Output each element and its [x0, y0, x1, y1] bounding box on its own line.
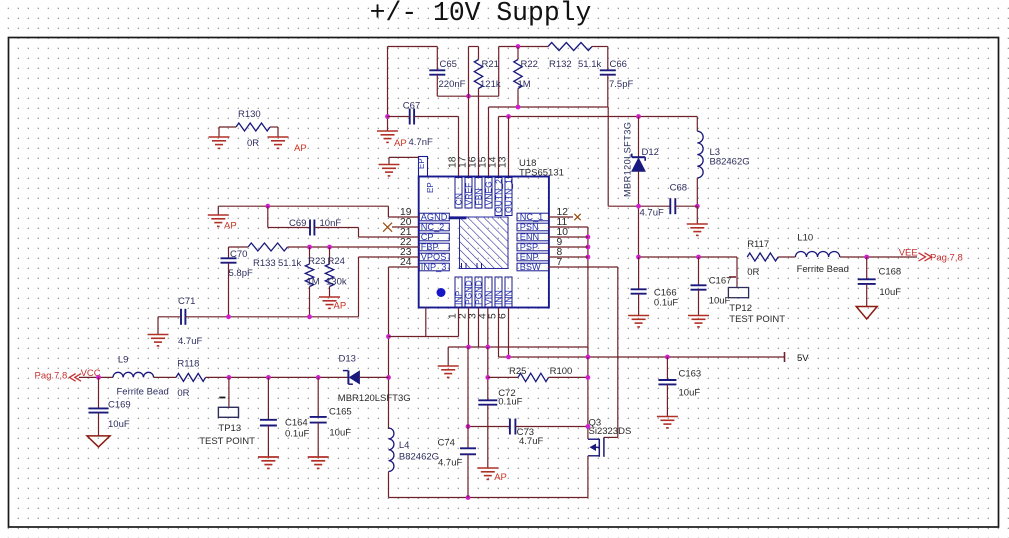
svg-text:C68: C68 — [670, 183, 687, 194]
svg-text:C169: C169 — [108, 400, 131, 411]
svg-text:1M: 1M — [518, 79, 531, 90]
svg-text:1M: 1M — [307, 277, 320, 288]
svg-text:L4: L4 — [399, 440, 410, 451]
svg-text:24: 24 — [400, 257, 412, 268]
svg-text:Pag.7,8: Pag.7,8 — [35, 371, 68, 382]
svg-text:0R: 0R — [247, 138, 259, 149]
svg-text:AP: AP — [224, 221, 237, 232]
svg-text:D12: D12 — [642, 147, 659, 158]
svg-text:VNEG: VNEG — [484, 181, 494, 206]
svg-text:C67: C67 — [403, 101, 420, 112]
svg-text:C71: C71 — [178, 296, 195, 307]
svg-text:C168: C168 — [879, 267, 902, 278]
svg-text:R132: R132 — [549, 59, 572, 70]
svg-text:B82462G: B82462G — [710, 157, 750, 168]
svg-text:EP: EP — [426, 182, 435, 193]
svg-text:51.1k: 51.1k — [278, 258, 301, 269]
svg-text:C69: C69 — [289, 218, 306, 229]
svg-text:CN: CN — [454, 193, 464, 205]
svg-text:L9: L9 — [118, 355, 129, 366]
svg-text:NC_2: NC_2 — [421, 222, 445, 232]
svg-text:C74: C74 — [438, 438, 455, 449]
svg-text:10nF: 10nF — [320, 218, 342, 229]
svg-text:0R: 0R — [177, 388, 189, 399]
svg-text:VREF: VREF — [464, 183, 474, 206]
svg-text:121k: 121k — [480, 79, 501, 90]
svg-text:PGND: PGND — [474, 280, 484, 305]
svg-text:4.7uF: 4.7uF — [519, 436, 543, 447]
svg-text:130k: 130k — [326, 277, 347, 288]
svg-text:FBN: FBN — [474, 188, 484, 205]
svg-text:10uF: 10uF — [709, 296, 731, 307]
svg-text:R133: R133 — [253, 258, 276, 269]
svg-text:4.7uF: 4.7uF — [640, 208, 664, 219]
svg-text:EP: EP — [417, 158, 426, 169]
svg-text:TP12: TP12 — [729, 303, 752, 314]
svg-text:PSP: PSP — [520, 242, 538, 252]
svg-text:R130: R130 — [238, 109, 261, 120]
svg-text:L10: L10 — [797, 233, 813, 244]
svg-text:OUTN_2: OUTN_2 — [494, 179, 504, 213]
svg-text:0.1uF: 0.1uF — [285, 429, 309, 440]
svg-text:10uF: 10uF — [108, 419, 130, 430]
svg-text:R21: R21 — [482, 59, 499, 70]
svg-text:0.1uF: 0.1uF — [498, 397, 522, 408]
svg-text:VEE: VEE — [899, 248, 918, 259]
svg-text:INN: INN — [504, 290, 514, 305]
svg-text:R22: R22 — [521, 59, 538, 70]
svg-text:4.7uF: 4.7uF — [438, 458, 462, 469]
svg-text:C167: C167 — [709, 276, 732, 287]
svg-text:FBP: FBP — [421, 242, 439, 252]
svg-text:C70: C70 — [230, 249, 247, 260]
svg-text:+/- 10V Supply: +/- 10V Supply — [370, 0, 592, 28]
svg-text:R117: R117 — [747, 239, 769, 250]
svg-text:C65: C65 — [440, 59, 457, 70]
svg-text:B82462G: B82462G — [399, 452, 439, 463]
svg-text:R25: R25 — [509, 366, 526, 377]
svg-text:C165: C165 — [329, 407, 352, 418]
svg-text:BSW: BSW — [520, 262, 541, 272]
svg-text:AP: AP — [394, 138, 407, 149]
svg-text:10uF: 10uF — [329, 428, 351, 439]
svg-text:TEST POINT: TEST POINT — [199, 436, 255, 447]
svg-text:MBR120LSFT3G: MBR120LSFT3G — [623, 122, 633, 197]
svg-text:4.7nF: 4.7nF — [409, 137, 433, 148]
svg-text:VPOS: VPOS — [421, 252, 447, 262]
svg-text:TP13: TP13 — [218, 423, 241, 434]
svg-text:Ferrite Bead: Ferrite Bead — [117, 387, 169, 398]
svg-text:Pag.7,8: Pag.7,8 — [930, 253, 963, 264]
svg-text:Ferrite Bead: Ferrite Bead — [797, 264, 849, 275]
svg-text:7: 7 — [557, 257, 563, 268]
svg-text:10uF: 10uF — [879, 287, 901, 298]
svg-text:R23: R23 — [308, 256, 325, 267]
svg-text:INP_3: INP_3 — [421, 262, 447, 272]
svg-text:AP: AP — [294, 143, 307, 154]
svg-text:TEST POINT: TEST POINT — [729, 314, 785, 325]
svg-text:VIN: VIN — [484, 291, 494, 305]
svg-text:10uF: 10uF — [679, 388, 701, 399]
svg-text:C66: C66 — [610, 59, 627, 70]
svg-text:ENP: ENP — [520, 252, 539, 262]
svg-text:CP: CP — [421, 232, 434, 242]
svg-text:AP: AP — [334, 301, 347, 312]
svg-text:6: 6 — [498, 313, 509, 319]
svg-text:AP: AP — [494, 472, 507, 483]
svg-text:0.1uF: 0.1uF — [654, 298, 678, 309]
svg-text:5V: 5V — [797, 353, 809, 364]
svg-text:220nF: 220nF — [439, 79, 466, 90]
svg-text:ENN: ENN — [520, 232, 539, 242]
svg-text:PGND: PGND — [464, 280, 474, 305]
svg-text:OUTN_1: OUTN_1 — [504, 179, 514, 213]
svg-text:TPS65131: TPS65131 — [519, 168, 564, 179]
svg-text:AGND: AGND — [421, 212, 448, 222]
svg-text:R24: R24 — [328, 256, 345, 267]
svg-text:5.8pF: 5.8pF — [229, 268, 253, 279]
svg-text:C163: C163 — [679, 369, 702, 380]
svg-text:PSN: PSN — [520, 222, 539, 232]
svg-text:4.7uF: 4.7uF — [178, 336, 202, 347]
svg-text:0R: 0R — [747, 267, 759, 278]
svg-text:D13: D13 — [339, 354, 356, 365]
svg-text:INN: INN — [494, 290, 504, 305]
svg-text:R100: R100 — [550, 366, 573, 377]
svg-text:51.1k: 51.1k — [578, 59, 601, 70]
svg-text:C164: C164 — [285, 418, 308, 429]
svg-text:13: 13 — [498, 156, 509, 168]
svg-text:INP: INP — [454, 290, 464, 305]
svg-text:NC_1: NC_1 — [520, 212, 544, 222]
svg-text:MBR120LSFT3G: MBR120LSFT3G — [338, 393, 411, 404]
svg-text:7.5pF: 7.5pF — [609, 79, 633, 90]
svg-text:Si2323DS: Si2323DS — [589, 426, 632, 437]
svg-text:R118: R118 — [177, 359, 199, 370]
